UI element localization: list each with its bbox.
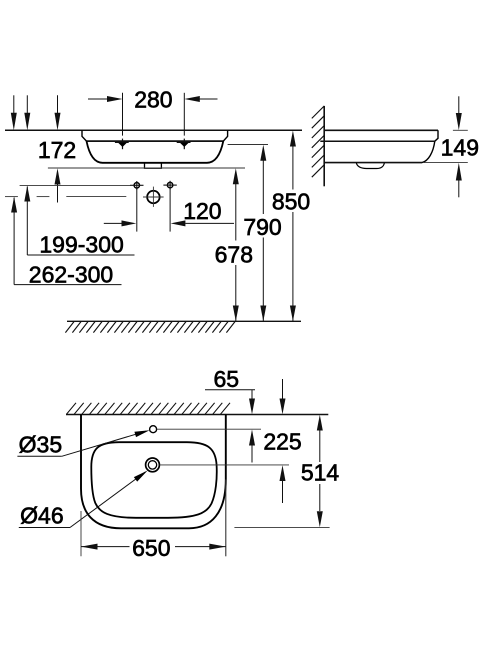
svg-text:65: 65 [214, 366, 240, 392]
svg-text:225: 225 [263, 429, 301, 455]
svg-text:280: 280 [134, 87, 172, 113]
svg-text:120: 120 [183, 198, 221, 224]
svg-text:850: 850 [272, 188, 310, 214]
svg-text:514: 514 [301, 459, 340, 485]
svg-text:262-300: 262-300 [29, 261, 113, 287]
svg-text:149: 149 [441, 135, 479, 161]
svg-text:Ø46: Ø46 [20, 503, 63, 529]
svg-text:199-300: 199-300 [39, 232, 123, 258]
svg-text:172: 172 [38, 137, 76, 163]
svg-text:Ø35: Ø35 [19, 432, 62, 458]
svg-text:650: 650 [132, 535, 170, 561]
svg-text:678: 678 [215, 241, 253, 267]
svg-text:790: 790 [243, 214, 281, 240]
